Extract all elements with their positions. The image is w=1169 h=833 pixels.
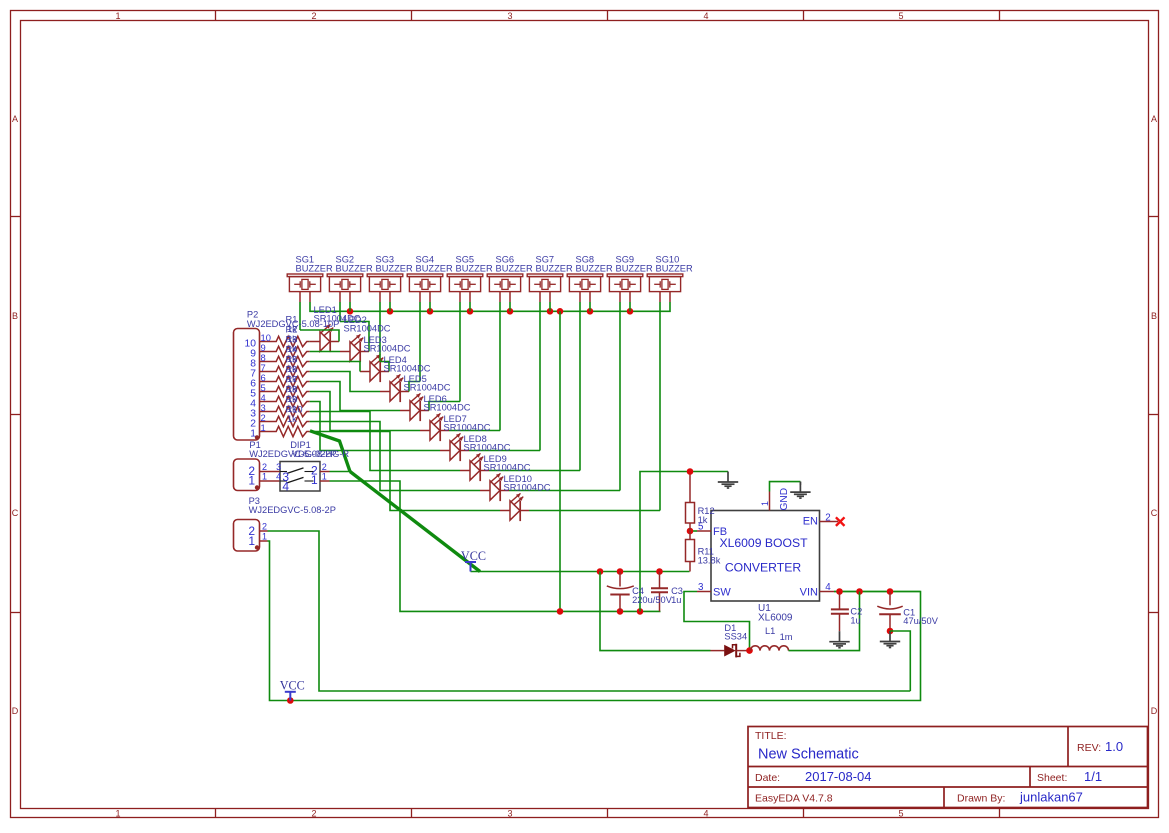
svg-text:1: 1	[115, 809, 120, 819]
svg-text:1: 1	[261, 422, 266, 433]
svg-text:SS34: SS34	[724, 632, 747, 642]
svg-text:R2: R2	[286, 325, 298, 335]
svg-text:VCC: VCC	[280, 679, 305, 693]
svg-text:R4: R4	[286, 345, 298, 355]
svg-text:BUZZER: BUZZER	[336, 264, 373, 274]
svg-text:XL6009 BOOST: XL6009 BOOST	[719, 536, 808, 550]
svg-text:4: 4	[703, 809, 708, 819]
svg-text:1: 1	[262, 471, 267, 481]
svg-text:BUZZER: BUZZER	[616, 264, 653, 274]
svg-text:4: 4	[825, 582, 831, 593]
svg-text:EasyEDA V4.7.8: EasyEDA V4.7.8	[755, 793, 833, 805]
svg-text:R7: R7	[286, 375, 298, 385]
svg-text:R10: R10	[286, 405, 303, 415]
svg-text:1: 1	[115, 11, 120, 21]
svg-text:Sheet:: Sheet:	[1037, 772, 1067, 784]
svg-text:REV:: REV:	[1077, 742, 1101, 754]
svg-text:1/1: 1/1	[1084, 769, 1102, 784]
svg-text:1: 1	[311, 473, 318, 487]
svg-text:Date:: Date:	[755, 772, 780, 784]
svg-text:3: 3	[276, 462, 281, 472]
svg-text:R6: R6	[286, 365, 298, 375]
svg-text:L1: L1	[765, 626, 775, 636]
svg-text:13.8k: 13.8k	[698, 556, 721, 566]
svg-text:BUZZER: BUZZER	[656, 264, 693, 274]
svg-text:1: 1	[262, 531, 267, 541]
svg-text:4: 4	[703, 11, 708, 21]
svg-text:SR1004DC: SR1004DC	[344, 324, 391, 334]
svg-text:2017-08-04: 2017-08-04	[805, 769, 872, 784]
svg-text:C: C	[1151, 508, 1158, 518]
svg-text:XL6009: XL6009	[758, 613, 793, 624]
svg-text:VDG-02HG-R: VDG-02HG-R	[292, 449, 350, 459]
svg-text:A: A	[1151, 114, 1157, 124]
svg-text:B: B	[12, 311, 18, 321]
svg-text:BUZZER: BUZZER	[496, 264, 533, 274]
svg-text:3: 3	[698, 582, 704, 593]
svg-text:C: C	[12, 508, 19, 518]
svg-text:junlakan67: junlakan67	[1019, 790, 1083, 805]
svg-text:VCC: VCC	[461, 549, 486, 563]
svg-text:4: 4	[276, 471, 281, 481]
svg-text:1m: 1m	[780, 632, 793, 642]
svg-text:BUZZER: BUZZER	[376, 264, 413, 274]
svg-text:New Schematic: New Schematic	[758, 747, 859, 763]
svg-text:2: 2	[825, 512, 830, 523]
svg-text:BUZZER: BUZZER	[416, 264, 453, 274]
svg-text:CONVERTER: CONVERTER	[725, 561, 801, 575]
svg-text:SR1004DC: SR1004DC	[464, 443, 511, 453]
svg-text:BUZZER: BUZZER	[456, 264, 493, 274]
svg-text:VIN: VIN	[800, 587, 818, 599]
svg-text:BUZZER: BUZZER	[576, 264, 613, 274]
svg-text:R1: R1	[286, 315, 298, 325]
svg-text:2: 2	[322, 462, 327, 472]
svg-text:220u/50V: 220u/50V	[632, 595, 673, 605]
svg-text:BUZZER: BUZZER	[536, 264, 573, 274]
svg-text:1: 1	[760, 501, 770, 506]
svg-text:GND: GND	[779, 488, 790, 511]
svg-text:WJ2EDGVC-5.08-2P: WJ2EDGVC-5.08-2P	[249, 505, 336, 515]
svg-text:SR1004DC: SR1004DC	[424, 403, 471, 413]
svg-text:47u/50V: 47u/50V	[903, 616, 938, 626]
svg-text:1k: 1k	[698, 515, 708, 525]
svg-text:R8: R8	[286, 385, 298, 395]
svg-text:D: D	[12, 706, 19, 716]
svg-text:SR1004DC: SR1004DC	[404, 383, 451, 393]
svg-text:5: 5	[898, 809, 903, 819]
svg-text:FB: FB	[713, 526, 727, 538]
svg-text:P2: P2	[247, 310, 258, 320]
svg-text:B: B	[1151, 311, 1157, 321]
svg-text:SR1004DC: SR1004DC	[384, 364, 431, 374]
svg-text:1: 1	[248, 534, 255, 548]
svg-text:EN: EN	[803, 516, 818, 528]
svg-text:SR1004DC: SR1004DC	[484, 463, 531, 473]
svg-text:1: 1	[322, 471, 327, 481]
svg-text:R9: R9	[286, 395, 298, 405]
svg-text:SR1004DC: SR1004DC	[444, 423, 491, 433]
svg-text:SW: SW	[713, 587, 731, 599]
svg-text:2: 2	[311, 809, 316, 819]
svg-text:BUZZER: BUZZER	[296, 264, 333, 274]
svg-text:1: 1	[248, 474, 255, 488]
svg-text:Drawn By:: Drawn By:	[957, 793, 1005, 805]
svg-text:1: 1	[250, 429, 256, 440]
svg-text:R5: R5	[286, 355, 298, 365]
svg-text:D: D	[1151, 706, 1158, 716]
svg-text:2: 2	[311, 11, 316, 21]
svg-text:SR1004DC: SR1004DC	[364, 344, 411, 354]
svg-text:2: 2	[262, 462, 267, 472]
svg-text:5: 5	[898, 11, 903, 21]
svg-text:SR1004DC: SR1004DC	[504, 483, 551, 493]
svg-text:2: 2	[262, 521, 267, 531]
svg-text:TITLE:: TITLE:	[755, 730, 787, 742]
svg-text:1u: 1u	[850, 615, 860, 625]
svg-text:1k: 1k	[287, 414, 297, 424]
svg-text:1.0: 1.0	[1105, 739, 1123, 754]
svg-text:3: 3	[507, 11, 512, 21]
svg-text:R3: R3	[286, 335, 298, 345]
svg-text:1u: 1u	[671, 595, 681, 605]
svg-text:4: 4	[282, 479, 289, 493]
svg-text:A: A	[12, 114, 18, 124]
svg-text:3: 3	[507, 809, 512, 819]
